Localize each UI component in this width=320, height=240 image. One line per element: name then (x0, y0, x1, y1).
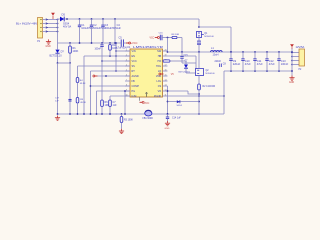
svg-text:1uF: 1uF (55, 100, 59, 102)
svg-text:GND: GND (289, 82, 294, 84)
svg-text:+VCC: +VCC (131, 41, 138, 45)
svg-text:GND: GND (46, 46, 51, 48)
svg-text:40V 5A: 40V 5A (63, 25, 72, 28)
svg-text:VDD: VDD (156, 75, 161, 78)
svg-text:VCC: VCC (132, 60, 137, 63)
svg-text:U1: U1 (127, 45, 131, 49)
svg-text:1uF: 1uF (117, 27, 122, 30)
svg-text:LM5145RGYR: LM5145RGYR (133, 45, 163, 49)
svg-text:220uF: 220uF (233, 62, 241, 66)
svg-text:CS: CS (158, 85, 162, 88)
svg-text:11: 11 (165, 95, 167, 97)
svg-text:EN: EN (132, 55, 136, 58)
svg-text:SS: SS (132, 65, 136, 68)
svg-text:19: 19 (164, 55, 166, 57)
svg-text:BL+ IN(10V~48V): BL+ IN(10V~48V) (16, 22, 38, 26)
svg-text:SW: SW (157, 50, 162, 53)
svg-text:20: 20 (164, 50, 166, 52)
svg-text:AGND: AGND (132, 75, 139, 78)
svg-text:R10: R10 (112, 45, 117, 47)
svg-text:R3 100K: R3 100K (124, 119, 133, 121)
svg-text:10uH: 10uH (213, 54, 219, 57)
svg-text:LO: LO (158, 70, 161, 73)
svg-text:1nF: 1nF (113, 104, 118, 107)
svg-text:VO: VO (158, 90, 162, 93)
svg-text:ILIM: ILIM (132, 95, 137, 98)
svg-text:PGND: PGND (154, 95, 161, 98)
svg-text:100nF: 100nF (95, 48, 102, 50)
svg-text:49.9K: 49.9K (80, 83, 86, 85)
svg-text:16: 16 (164, 70, 166, 72)
svg-text:GND: GND (165, 128, 170, 130)
svg-text:47uF: 47uF (257, 62, 263, 66)
svg-text:COMP: COMP (132, 85, 140, 88)
svg-text:17: 17 (164, 65, 166, 67)
svg-text:SS14: SS14 (177, 105, 183, 107)
svg-text:PG: PG (132, 90, 136, 93)
svg-text:100nF: 100nF (281, 62, 289, 66)
svg-text:12V/5A: 12V/5A (296, 45, 305, 49)
svg-text:HOL: HOL (156, 65, 162, 68)
svg-text:FB: FB (132, 80, 136, 83)
svg-text:47uF: 47uF (269, 62, 275, 66)
svg-text:RT: RT (132, 70, 136, 73)
svg-text:100K: 100K (112, 48, 118, 50)
svg-text:VIN: VIN (132, 50, 136, 53)
svg-text:220nF: 220nF (215, 61, 222, 63)
svg-text:VCC: VCC (144, 102, 149, 105)
svg-text:LOL: LOL (156, 80, 161, 83)
svg-text:NCE0140: NCE0140 (206, 73, 216, 75)
svg-text:R2 0.1R/2W: R2 0.1R/2W (203, 86, 216, 88)
svg-text:HO: HO (157, 60, 161, 63)
svg-text:14: 14 (164, 80, 166, 82)
svg-text:47uF: 47uF (245, 62, 251, 66)
svg-text:R8 10R: R8 10R (172, 34, 180, 36)
svg-text:FB1 600R: FB1 600R (143, 118, 154, 120)
svg-text:C14 1uF: C14 1uF (172, 118, 181, 120)
svg-text:49.9K: 49.9K (80, 102, 86, 104)
svg-text:HB: HB (158, 55, 162, 58)
svg-text:13: 13 (164, 85, 166, 87)
svg-text:100K: 100K (73, 50, 79, 53)
svg-text:VCC: VCC (149, 38, 154, 40)
svg-text:12: 12 (164, 90, 166, 92)
svg-text:D5: D5 (62, 13, 66, 17)
svg-text:100uF/50V: 100uF/50V (105, 27, 118, 30)
svg-text:BZT52C10: BZT52C10 (50, 54, 63, 57)
svg-text:BZT52C5V1: BZT52C5V1 (179, 72, 191, 74)
svg-text:NCE0140: NCE0140 (204, 36, 214, 38)
svg-text:7: 7 (126, 80, 127, 82)
svg-text:100uF/50V: 100uF/50V (81, 27, 94, 30)
svg-text:15: 15 (164, 75, 166, 77)
